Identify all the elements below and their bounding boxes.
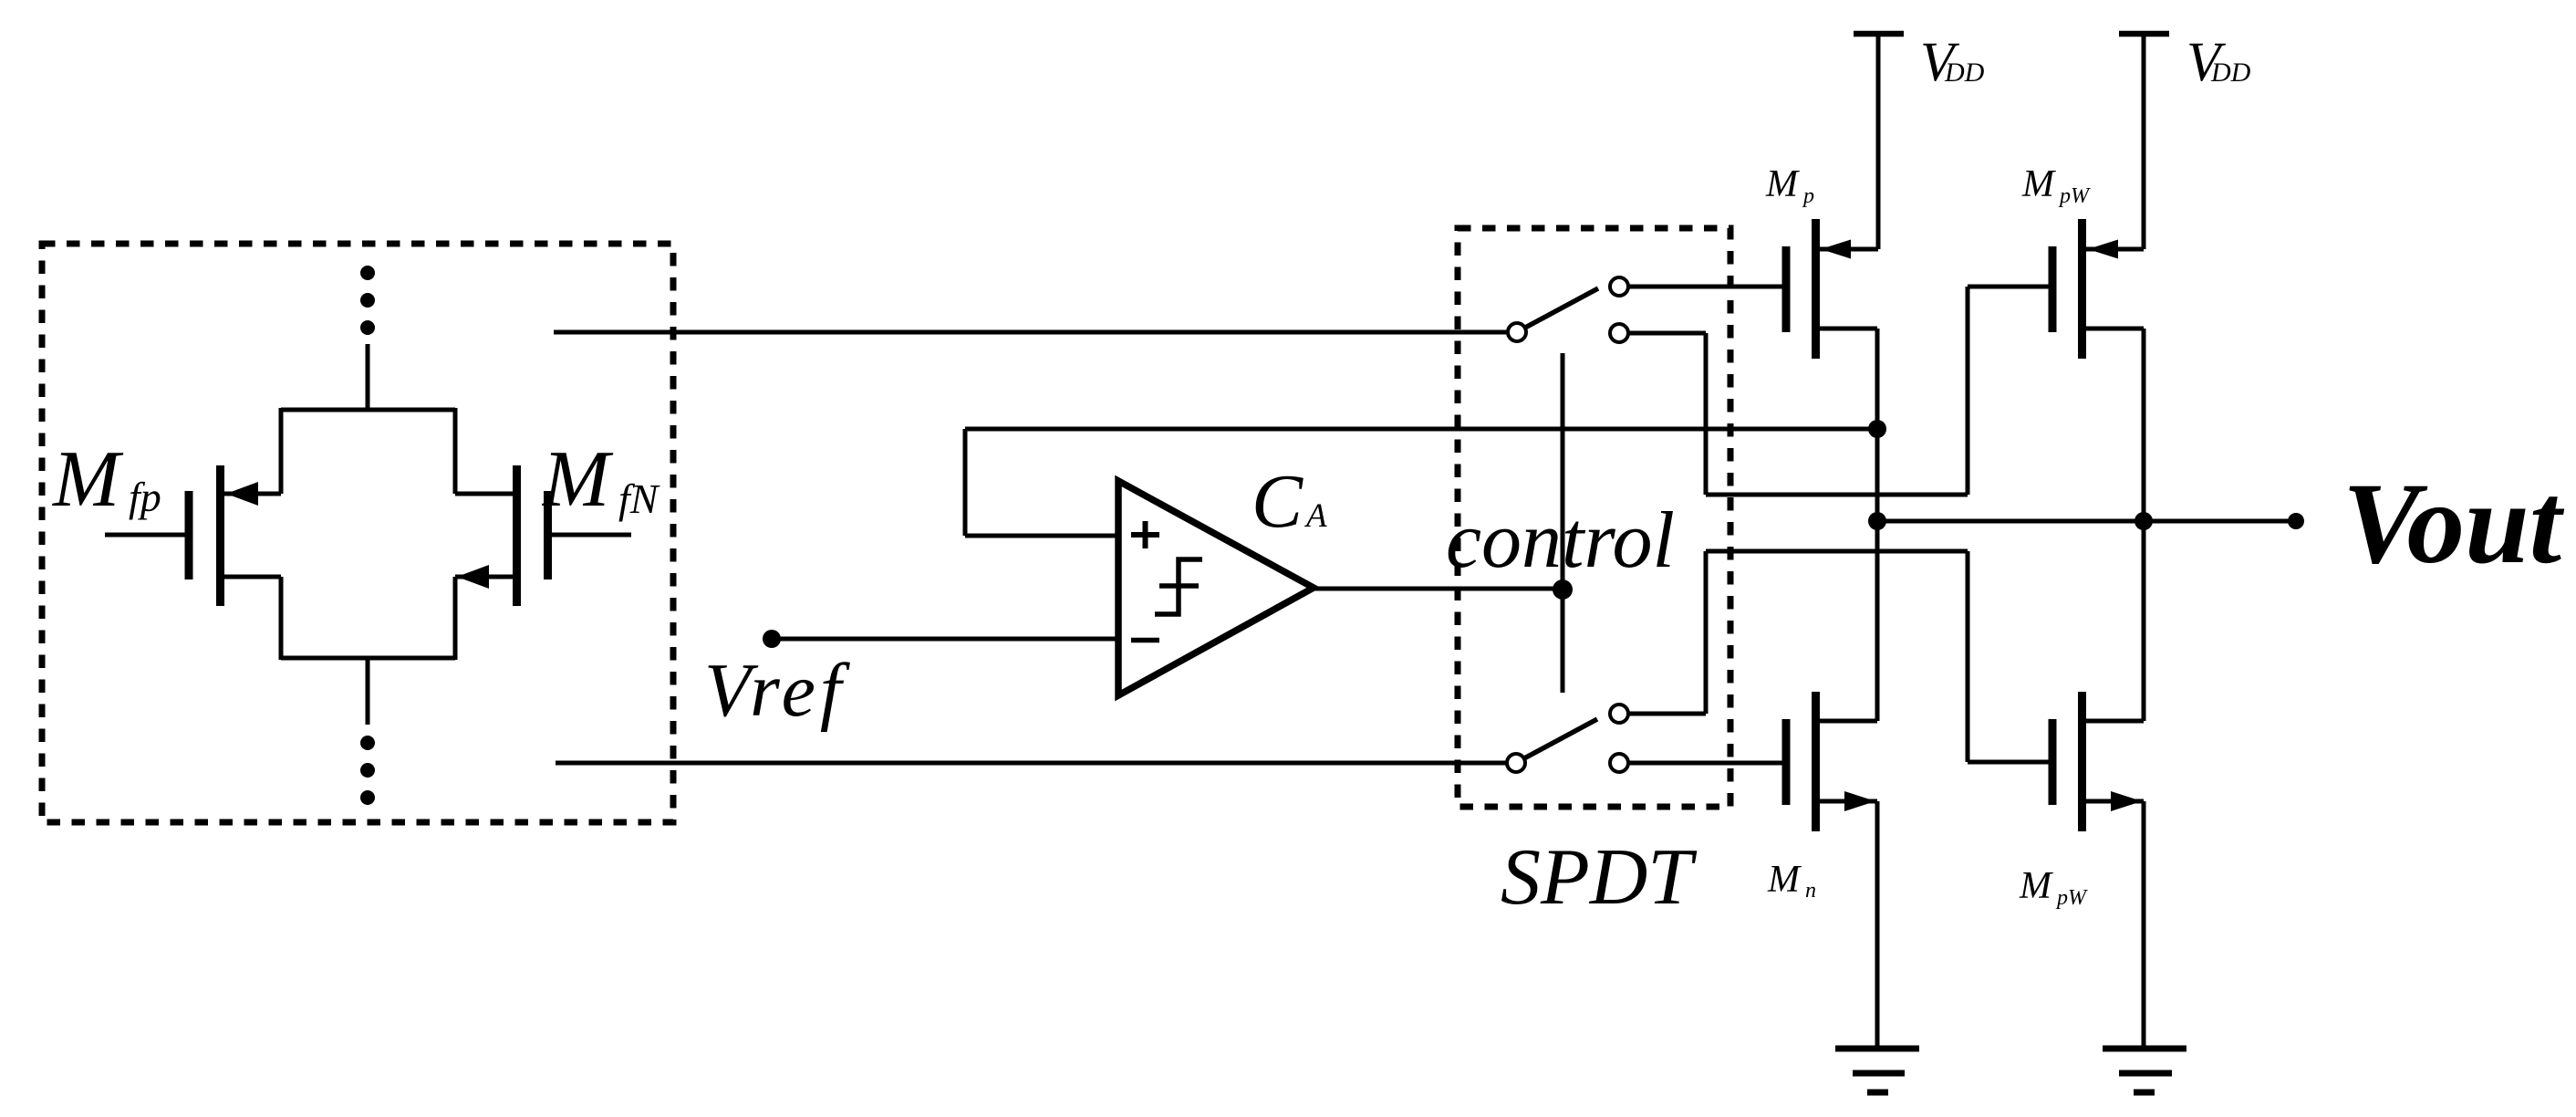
wire: top stub to dots xyxy=(366,344,370,410)
svg-text:A: A xyxy=(1304,497,1327,535)
node Vout terminal xyxy=(2288,513,2304,529)
wire: top output of array to SPDT xyxy=(554,330,1507,335)
switch SW2 contacts xyxy=(1507,754,1525,772)
svg-text:n: n xyxy=(1805,879,1816,903)
svg-text:M: M xyxy=(1767,859,1802,901)
transistor M_n xyxy=(1786,692,1877,831)
wire: cross-couple bottom horizontal xyxy=(281,656,455,661)
svg-text:DD: DD xyxy=(2210,57,2251,88)
wire: left verticals of cross-couple box xyxy=(279,408,284,494)
svg-text:M: M xyxy=(541,435,614,524)
wire: SW1 throw B routing to M_pW gate xyxy=(1629,331,1706,336)
power VDD rail 1 xyxy=(1854,31,1904,37)
svg-text:fN: fN xyxy=(618,475,660,522)
wire: comparator output xyxy=(1314,587,1563,591)
switch SW2 (bottom) arm xyxy=(1524,719,1597,758)
transistor M_fN xyxy=(455,465,631,606)
continuation dots bottom xyxy=(360,736,375,805)
svg-text:M: M xyxy=(51,435,124,524)
svg-text:M: M xyxy=(2019,865,2053,907)
minus input mark xyxy=(1131,638,1159,643)
node feedback tap xyxy=(1868,420,1886,438)
svg-text:Vref: Vref xyxy=(704,648,851,733)
power VDD rail 2 xyxy=(2119,31,2169,37)
hysteresis symbol xyxy=(1155,559,1202,614)
wire: control vertical line xyxy=(1561,353,1565,693)
svg-text:M: M xyxy=(1765,163,1800,205)
switch SW1 (top) arm xyxy=(1525,288,1598,328)
wire: SW2 throw B to M_n gate xyxy=(1629,761,1782,766)
transistor M_pW (top) xyxy=(2052,219,2144,359)
transistor M_fp xyxy=(105,465,281,606)
wire: M_n source to ground xyxy=(1875,801,1880,1049)
ground 2 xyxy=(2103,1049,2186,1092)
wire: bottom output of array to SPDT xyxy=(556,761,1506,766)
ground 1 xyxy=(1835,1049,1919,1092)
wire: cross-couple top horizontal xyxy=(281,408,455,412)
transistor M_p xyxy=(1786,219,1878,359)
svg-text:M: M xyxy=(2021,163,2056,205)
dashed box: feedback transistor array xyxy=(42,244,673,822)
wire: M_pW source to ground xyxy=(2142,801,2146,1049)
wire: Vout line xyxy=(1877,519,2296,524)
node Vref xyxy=(763,630,781,648)
svg-text:control: control xyxy=(1446,496,1675,585)
wire: right rail between M_pW transistors xyxy=(2142,329,2146,721)
svg-text:fp: fp xyxy=(129,474,161,520)
svg-text:p: p xyxy=(1802,184,1814,208)
node Vout tap left xyxy=(1868,512,1886,530)
wire: plus input xyxy=(965,534,1118,538)
wire: right verticals of cross-couple box xyxy=(453,408,458,494)
wire: SW2 throw A routing to M_pW bottom gate xyxy=(1629,712,1706,716)
transistor M_pW (bottom) xyxy=(2052,692,2144,831)
continuation dots top xyxy=(360,266,375,335)
svg-text:pW: pW xyxy=(2055,886,2088,910)
wire: feedback horizontal to output rail xyxy=(965,427,1877,432)
switch SW1 contacts xyxy=(1508,323,1526,341)
dashed box: SPDT switches xyxy=(1458,228,1730,807)
svg-text:DD: DD xyxy=(1944,57,1985,88)
op-amp C_A comparator triangle xyxy=(1118,481,1314,695)
wire: bottom stub to dots xyxy=(366,658,370,725)
wire: left output rail xyxy=(1875,329,1880,721)
svg-text:pW: pW xyxy=(2058,184,2091,208)
svg-text:SPDT: SPDT xyxy=(1501,833,1698,922)
node Vout tap right xyxy=(2135,512,2153,530)
svg-text:C: C xyxy=(1252,459,1304,544)
node control junction xyxy=(1553,579,1573,600)
wire: SW1 throw A to M_p gate xyxy=(1629,285,1782,289)
wire: minus input from Vref xyxy=(772,637,1118,642)
plus input mark xyxy=(1131,521,1159,548)
wire: feedback vertical xyxy=(963,429,968,536)
svg-text:Vout: Vout xyxy=(2342,460,2565,588)
